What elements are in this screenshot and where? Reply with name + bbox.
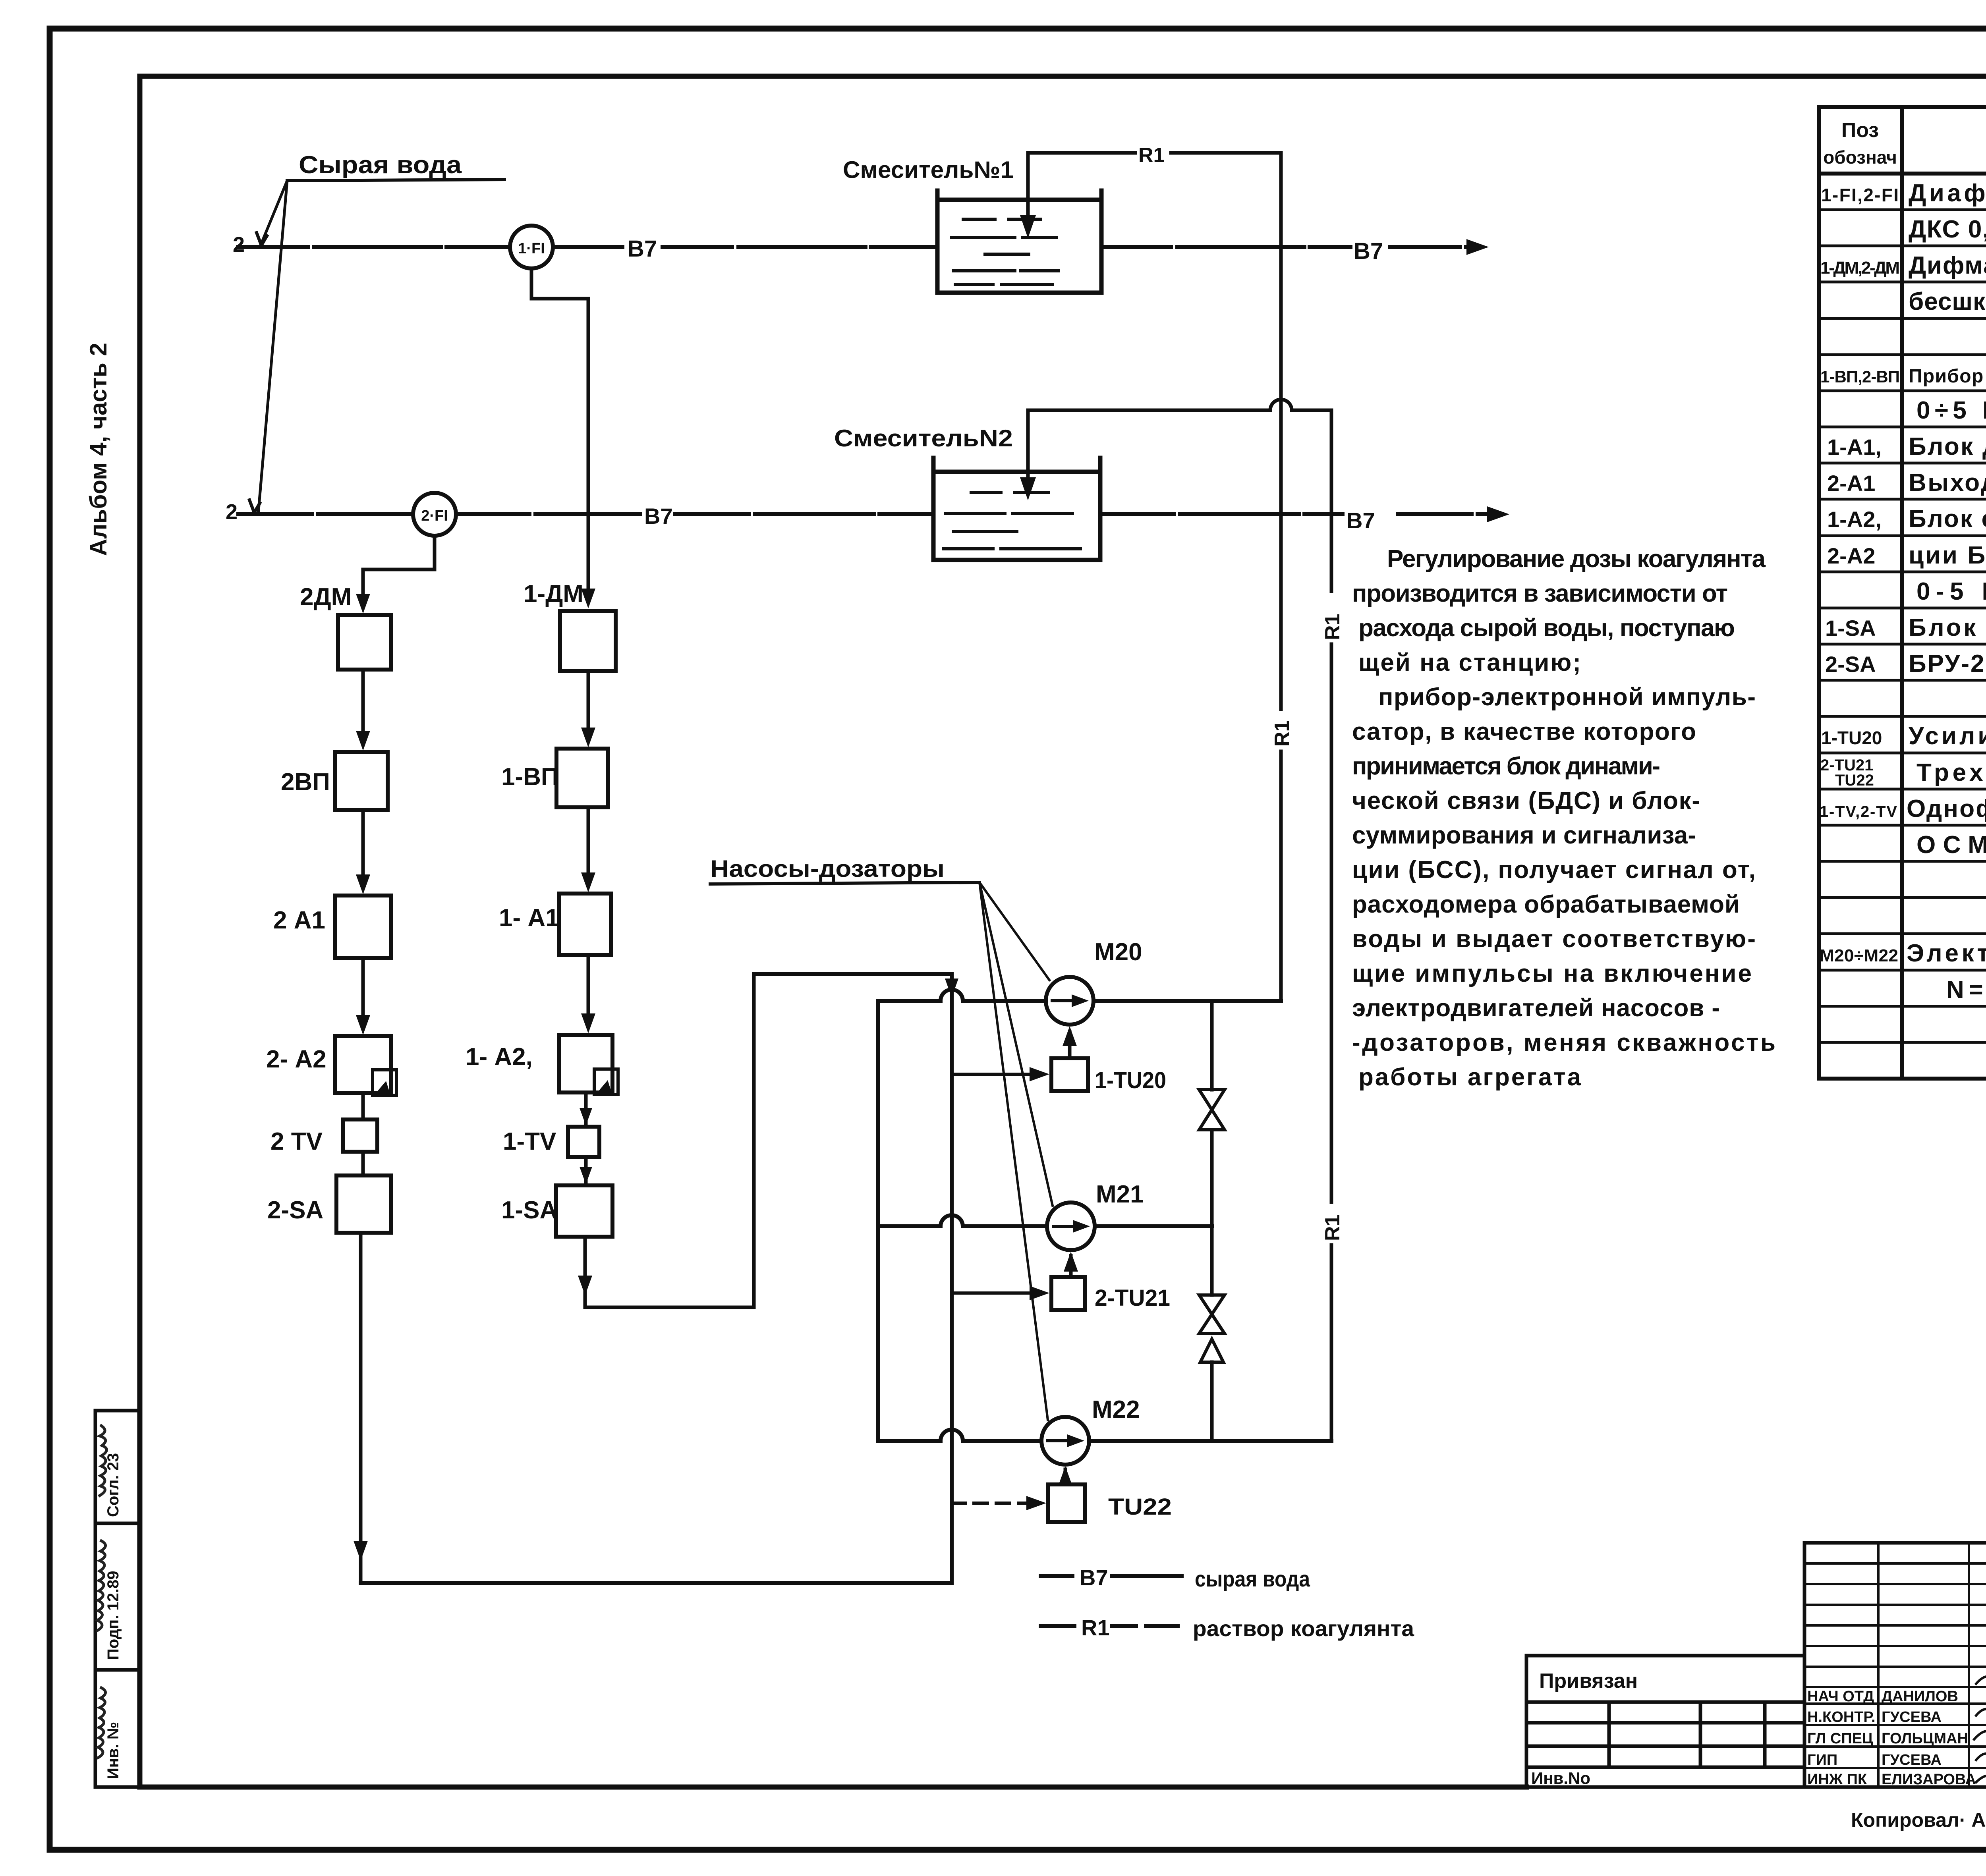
motor M20 xyxy=(1046,977,1093,1025)
pipe B7 line 1 xyxy=(238,245,1476,249)
svg-text:1-ТU20: 1-ТU20 xyxy=(1095,1067,1166,1093)
svg-text:1-ТU20: 1-ТU20 xyxy=(1821,728,1882,748)
svg-text:В7: В7 xyxy=(1354,238,1383,264)
svg-text:1- А1: 1- А1 xyxy=(499,904,559,932)
svg-text:R1: R1 xyxy=(1138,144,1165,167)
svg-text:ГУСЕВА: ГУСЕВА xyxy=(1882,1752,1942,1768)
svg-text:Н.КОНТР.: Н.КОНТР. xyxy=(1807,1709,1876,1725)
svg-text:Блок динамической связи БДС: Блок динамической связи БДС xyxy=(1909,433,1986,460)
svg-text:Однофазный трансформатор: Однофазный трансформатор xyxy=(1907,795,1986,822)
svg-text:Сырая вода: Сырая вода xyxy=(299,151,462,179)
svg-text:1-А2,: 1-А2, xyxy=(1827,507,1882,532)
block 1-TV xyxy=(568,1127,599,1157)
block 1-SA xyxy=(556,1185,612,1237)
wire 2-A1 to 2-A2 xyxy=(361,958,365,1025)
pump suction manifold xyxy=(876,1001,880,1441)
svg-text:2·FI: 2·FI xyxy=(421,508,448,524)
svg-text:ГУСЕВА: ГУСЕВА xyxy=(1882,1709,1942,1725)
svg-text:М20: М20 xyxy=(1094,938,1142,966)
leader to M20 xyxy=(979,882,1049,980)
title block signatures scribbles xyxy=(1974,1676,1986,1793)
svg-text:1-SА: 1-SА xyxy=(1825,616,1876,641)
svg-text:М20÷М22: М20÷М22 xyxy=(1820,946,1898,965)
arrow on 2-SA wire xyxy=(354,1541,368,1561)
R1 discharge riser xyxy=(1330,410,1333,1441)
svg-text:ЕЛИЗАРОВА: ЕЛИЗАРОВА xyxy=(1882,1771,1976,1788)
thyristor unit TU22 xyxy=(1048,1484,1085,1522)
svg-text:Поз: Поз xyxy=(1841,119,1879,142)
svg-text:Регулирование дозы коагулянт: Регулирование дозы коагулянта xyxy=(1387,545,1766,573)
R1 inlet arrow tank 1 xyxy=(1020,215,1036,238)
thyristor unit 2-TU21 stub xyxy=(1069,1256,1073,1277)
motor M22 xyxy=(1041,1417,1089,1465)
svg-text:Привязан: Привязан xyxy=(1539,1669,1638,1693)
title block frame xyxy=(1804,1543,1986,1787)
svg-text:М21: М21 xyxy=(1096,1181,1144,1208)
wire 1-A2 to 1-TV xyxy=(584,1092,588,1127)
valve bypass line lower xyxy=(1210,1226,1214,1441)
coagulant feed R1 to tank 1 xyxy=(1028,153,1281,228)
svg-text:2ВП: 2ВП xyxy=(281,768,330,796)
svg-text:расходомера обрабатываемой: расходомера обрабатываемой xyxy=(1352,891,1740,918)
svg-text:Альбом 4, часть 2: Альбом 4, часть 2 xyxy=(85,343,112,556)
wire 1-DM to 1-VP xyxy=(587,671,590,737)
privyazan box xyxy=(1526,1656,1804,1787)
thyristor unit 1-TU20 stub xyxy=(1068,1032,1072,1058)
mixer tank 2 xyxy=(933,458,1100,560)
bottom control wire xyxy=(361,974,952,1583)
svg-text:ции (БСС), получает сигнал о: ции (БСС), получает сигнал от, xyxy=(1352,856,1756,884)
leader to M22 xyxy=(979,882,1048,1420)
pump line M20 xyxy=(878,990,1281,1001)
svg-text:раствор коагулянта: раствор коагулянта xyxy=(1193,1616,1414,1641)
wire 2-SA down xyxy=(359,1233,363,1581)
svg-text:2: 2 xyxy=(233,233,245,257)
svg-text:ДАНИЛОВ: ДАНИЛОВ xyxy=(1882,1688,1958,1705)
pipe 2 end arrow xyxy=(1487,506,1509,522)
legend line B7 xyxy=(1041,1574,1182,1578)
svg-text:1·FI: 1·FI xyxy=(518,240,545,257)
svg-text:Подп. 12.89: Подп. 12.89 xyxy=(104,1571,122,1660)
title block signature grid xyxy=(1804,1543,1986,1787)
svg-text:ДКС 0,6 200-А-1-а/б-1ГОСТ26969: ДКС 0,6 200-А-1-а/б-1ГОСТ26969-88 xyxy=(1909,216,1986,243)
svg-text:1-А1,: 1-А1, xyxy=(1827,434,1882,459)
svg-text:обознач: обознач xyxy=(1823,147,1897,168)
explanatory text block xyxy=(1352,545,1775,1091)
svg-text:2 ТV: 2 ТV xyxy=(270,1128,323,1155)
arrow into 1-TV xyxy=(580,1108,592,1125)
svg-text:2: 2 xyxy=(226,500,238,524)
svg-text:R1: R1 xyxy=(1081,1615,1110,1640)
block 1-A2 xyxy=(559,1035,612,1092)
wire 2-DM to 2-VP xyxy=(361,670,365,739)
block 2-A2 xyxy=(335,1036,391,1093)
svg-text:ИНЖ ПК: ИНЖ ПК xyxy=(1807,1771,1867,1788)
block 2-SA xyxy=(336,1175,391,1233)
svg-text:В7: В7 xyxy=(628,236,657,262)
svg-text:ГИП: ГИП xyxy=(1807,1752,1837,1768)
block 2-A2 corner notch xyxy=(373,1070,396,1095)
arrow into 2-VP xyxy=(356,731,370,751)
R1 supply vertical from tank feed xyxy=(1279,153,1283,1001)
left stamp noise marks xyxy=(97,1426,107,1758)
left stamp scribbles xyxy=(104,1453,122,1779)
svg-text:2 А1: 2 А1 xyxy=(273,907,325,934)
arrow into 2-A2 xyxy=(356,1015,370,1035)
block 2-DM xyxy=(338,615,391,670)
svg-text:В7: В7 xyxy=(1080,1565,1108,1590)
arrow into 1-VP xyxy=(581,728,595,747)
svg-text:НАЧ ОТД: НАЧ ОТД xyxy=(1807,1688,1874,1705)
wire 2-A2 to 2-TV xyxy=(361,1093,365,1119)
svg-text:ческой связи (БДС) и блок-: ческой связи (БДС) и блок- xyxy=(1352,787,1700,814)
arrow into 1-DM xyxy=(581,589,595,608)
svg-text:2-SА: 2-SА xyxy=(1825,652,1876,677)
block 2-VP xyxy=(335,752,388,810)
svg-text:R1: R1 xyxy=(1321,1215,1344,1241)
wire 2-TV to 2-SA xyxy=(361,1152,365,1175)
wire 1-VP to 1-A1 xyxy=(587,807,590,882)
raw water leader to pipe 2 xyxy=(258,181,287,514)
svg-text:2-А2: 2-А2 xyxy=(1827,543,1875,568)
arrow into M21 xyxy=(1064,1252,1078,1272)
svg-text:1-ВП: 1-ВП xyxy=(501,763,558,791)
svg-text:Усилитель тиристорный: Усилитель тиристорный xyxy=(1909,722,1986,750)
flow arrow below valve V2 xyxy=(1200,1339,1223,1362)
arrow on control bus near M20 xyxy=(945,979,958,998)
pump line M22 xyxy=(878,1430,1331,1441)
block 1-VP xyxy=(556,749,608,807)
pipe B7 line 2 xyxy=(238,512,1497,516)
block 2-TV xyxy=(343,1119,377,1152)
thyristor unit 1-TU20 xyxy=(1051,1058,1088,1091)
parts table header text xyxy=(1823,119,1986,168)
svg-text:1-FI,2-FI: 1-FI,2-FI xyxy=(1821,185,1899,205)
svg-text:Блок ручного управления: Блок ручного управления xyxy=(1909,614,1986,641)
svg-text:1- А2,: 1- А2, xyxy=(466,1043,533,1071)
svg-text:1-ДМ: 1-ДМ xyxy=(524,580,583,608)
raw water leader underline xyxy=(287,179,504,181)
svg-text:ОСМ1-0.1: ОСМ1-0.1 xyxy=(1916,831,1986,859)
svg-text:БРУ-22. Выходной сигнал 0-5 МА: БРУ-22. Выходной сигнал 0-5 МА xyxy=(1909,650,1986,677)
block 1-DM xyxy=(560,611,616,671)
valve V2 xyxy=(1199,1295,1225,1334)
pump line M21 xyxy=(878,1215,1212,1226)
svg-text:-дозаторов, меняя скважность: -дозаторов, меняя скважность xyxy=(1352,1029,1775,1056)
svg-text:Согл. 23: Согл. 23 xyxy=(104,1453,122,1517)
leader to M21 xyxy=(979,882,1053,1206)
svg-text:2- А2: 2- А2 xyxy=(266,1046,326,1073)
svg-text:производится в зависимости от: производится в зависимости от xyxy=(1352,580,1728,607)
parts table row lines xyxy=(1819,210,1986,1042)
svg-text:суммирования и сигнализа-: суммирования и сигнализа- xyxy=(1352,822,1696,849)
svg-text:Насосы-дозаторы: Насосы-дозаторы xyxy=(710,855,945,882)
svg-text:сырая вода: сырая вода xyxy=(1195,1566,1310,1591)
svg-text:2-А1: 2-А1 xyxy=(1827,471,1875,496)
svg-text:ТU22: ТU22 xyxy=(1835,772,1874,789)
svg-text:расхода сырой воды, поступаю: расхода сырой воды, поступаю xyxy=(1358,614,1735,642)
svg-text:прибор-электронной импуль-: прибор-электронной импуль- xyxy=(1378,683,1756,711)
legend line R1 xyxy=(1041,1624,1178,1628)
mixer tank 2 water waves xyxy=(943,492,1080,549)
svg-text:Прибор регистрирующий, предел: Прибор регистрирующий, предел измерения xyxy=(1909,366,1986,387)
svg-text:1-ТV: 1-ТV xyxy=(503,1128,556,1155)
svg-text:ГОЛЬЦМАН: ГОЛЬЦМАН xyxy=(1882,1730,1968,1747)
arrow on 1-SA wire xyxy=(578,1276,592,1295)
motor M21 xyxy=(1047,1202,1095,1250)
svg-text:Выходной сигнал 0-5МА ~ 220В: Выходной сигнал 0-5МА ~ 220В xyxy=(1909,469,1986,496)
arrow into 1-A1 xyxy=(581,872,595,892)
svg-text:В7: В7 xyxy=(1347,508,1375,533)
arrow into M20 xyxy=(1063,1026,1077,1046)
flow transmitter 1-FI xyxy=(510,226,553,268)
flow transmitter 2-FI xyxy=(413,493,456,536)
left registration stamp strip xyxy=(95,1411,140,1787)
svg-text:ции БСС. Выходной сигнал: ции БСС. Выходной сигнал xyxy=(1909,542,1986,569)
motor M21 flow arrow xyxy=(1053,1225,1074,1228)
svg-text:2ДМ: 2ДМ xyxy=(300,583,352,611)
wire 1-FI to 1-DM xyxy=(531,268,588,598)
svg-text:принимается блок динами-: принимается блок динами- xyxy=(1352,753,1660,780)
svg-text:СмесительN2: СмесительN2 xyxy=(834,425,1013,452)
svg-text:воды и выдает соответствую-: воды и выдает соответствую- xyxy=(1352,925,1756,953)
wire 2-VP to 2-A1 xyxy=(361,810,365,884)
svg-text:0-5 МА ~ 220В: 0-5 МА ~ 220В xyxy=(1916,578,1986,605)
wire 2-FI to 2-DM xyxy=(363,536,435,603)
arrow into 2-A1 xyxy=(356,874,370,894)
block 2-A1 xyxy=(335,896,391,958)
svg-text:Дифманометр мембранный: Дифманометр мембранный xyxy=(1909,252,1986,279)
svg-text:R1: R1 xyxy=(1271,720,1294,747)
svg-text:Копировал· Алешикова: Копировал· Алешикова xyxy=(1851,1809,1986,1831)
svg-text:ТU22: ТU22 xyxy=(1108,1494,1172,1520)
svg-text:Смеситель№1: Смеситель№1 xyxy=(843,156,1014,183)
wire 1-A1 to 1-A2 xyxy=(587,955,590,1023)
svg-text:щие импульсы на включение: щие импульсы на включение xyxy=(1352,960,1752,987)
wire 1-SA down and over xyxy=(585,974,754,1307)
svg-text:Блок суммирования и сигнализа-: Блок суммирования и сигнализа- xyxy=(1909,505,1986,533)
parts table frame xyxy=(1819,107,1986,1079)
arrow into 1-SA xyxy=(580,1167,592,1184)
motor M22 flow arrow xyxy=(1048,1439,1068,1442)
motor M20 flow arrow xyxy=(1052,999,1072,1002)
svg-text:2-SА: 2-SА xyxy=(267,1197,323,1224)
raw water leader to pipe 1 xyxy=(261,181,287,245)
svg-text:Диафрагма камерная Ду=200: Диафрагма камерная Ду=200 xyxy=(1909,179,1986,207)
svg-text:бесшкальный ~220В ДМЭР-М: бесшкальный ~220В ДМЭР-М xyxy=(1909,288,1986,315)
svg-text:В7: В7 xyxy=(644,504,673,529)
svg-text:Инв.No: Инв.No xyxy=(1531,1769,1590,1787)
arrow into 1-A2 xyxy=(581,1013,595,1033)
R1 inlet arrow tank 2 xyxy=(1020,477,1036,500)
block 1-A2 corner notch xyxy=(594,1069,618,1094)
feed wire to 2-TU21 xyxy=(952,1291,1032,1295)
svg-text:сатор, в качестве которого: сатор, в качестве которого xyxy=(1352,718,1696,745)
arrow into M22 xyxy=(1058,1466,1072,1486)
mixer tank 1 xyxy=(937,191,1101,293)
feed wire to 1-TU20 xyxy=(952,1073,1032,1076)
mixer tank 1 water waves xyxy=(951,219,1059,284)
svg-text:1-SА: 1-SА xyxy=(501,1197,557,1224)
pipe 1 end arrow xyxy=(1466,239,1489,255)
thyristor unit 2-TU21 xyxy=(1051,1277,1085,1310)
feed wire to TU22 dashed xyxy=(952,1502,1029,1505)
svg-text:работы агрегата: работы агрегата xyxy=(1358,1063,1581,1091)
block 1-A1 xyxy=(559,894,611,955)
thyristor unit TU22 stub xyxy=(1064,1469,1067,1484)
valve bypass line upper xyxy=(1210,1001,1214,1226)
parts table body text xyxy=(1820,179,1986,1004)
title block signature names xyxy=(1807,1688,1976,1788)
svg-text:ГЛ СПЕЦ: ГЛ СПЕЦ xyxy=(1807,1730,1873,1747)
valve V1 xyxy=(1199,1090,1225,1130)
svg-text:1-ВП,2-ВП: 1-ВП,2-ВП xyxy=(1820,367,1900,386)
svg-text:Инв. №: Инв. № xyxy=(104,1722,122,1779)
svg-text:М22: М22 xyxy=(1092,1396,1140,1423)
svg-text:1-ДМ,2-ДМ: 1-ДМ,2-ДМ xyxy=(1820,258,1900,278)
svg-text:электродвигателей насосов -: электродвигателей насосов - xyxy=(1352,994,1720,1022)
svg-text:щей на станцию;: щей на станцию; xyxy=(1358,649,1581,676)
coagulant feed R1 to tank 2 xyxy=(1028,400,1331,490)
svg-text:R1: R1 xyxy=(1321,614,1344,640)
arrow into 2-DM xyxy=(356,594,370,614)
wire 1-TV to 1-SA xyxy=(584,1157,588,1185)
dosing pumps label underline xyxy=(710,882,979,884)
svg-text:1-ТV,2-ТV: 1-ТV,2-ТV xyxy=(1820,803,1897,820)
svg-text:2-ТU21: 2-ТU21 xyxy=(1095,1285,1170,1311)
